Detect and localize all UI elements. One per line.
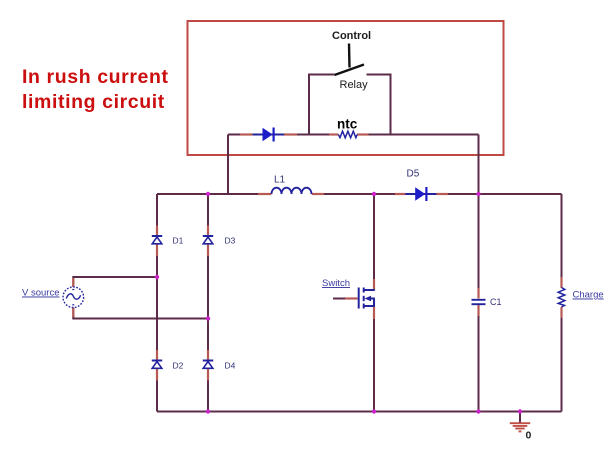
svg-text:Relay: Relay	[340, 79, 369, 91]
relay contact box (wires)	[308, 74, 392, 135]
wire: charge branch lower vertical	[561, 308, 563, 412]
resistor Charge	[558, 277, 565, 318]
svg-text:Charge: Charge	[573, 290, 604, 301]
wire: charge branch upper vertical	[561, 194, 563, 287]
wire: main bottom rail	[157, 411, 562, 413]
svg-text:Control: Control	[332, 30, 371, 42]
annotation box (red)	[188, 21, 504, 155]
svg-text:D1: D1	[173, 236, 184, 246]
diode D6 (inrush bypass diode)	[240, 128, 297, 142]
wire: inrush branch horizontal left of ntc	[228, 134, 330, 136]
wire: source bottom connection	[73, 308, 208, 319]
wire: mosfet source vertical	[373, 319, 375, 412]
transistor M1 (MOSFET switch)	[345, 279, 375, 319]
wire: inrush branch horizontal right of ntc	[368, 134, 479, 136]
junction dot at bridge bottom right	[206, 409, 210, 413]
wire: bridge right leg	[207, 194, 209, 412]
svg-text:Switch: Switch	[322, 278, 350, 289]
diode D3	[203, 226, 213, 257]
wire: main top rail right of L1	[323, 193, 562, 195]
wire: C1 lower vertical	[478, 316, 480, 412]
inductor L1	[258, 188, 324, 194]
svg-text:0: 0	[526, 430, 532, 442]
wire: gate lead	[333, 298, 345, 300]
wire: C1 upper vertical	[478, 194, 480, 288]
svg-text:D5: D5	[407, 169, 420, 180]
wire: inrush right vertical down to main rail	[478, 135, 480, 195]
wire: source top connection	[73, 277, 157, 287]
diode D4	[203, 350, 213, 381]
wire: main top rail left of L1	[157, 193, 259, 195]
svg-text:limiting circuit: limiting circuit	[22, 91, 165, 113]
junction dot at ground	[518, 409, 522, 413]
svg-text:V source: V source	[22, 288, 60, 299]
diode D5	[395, 187, 448, 201]
svg-text:D4: D4	[225, 361, 236, 371]
junction dot at C1 bottom	[476, 409, 480, 413]
ground 0	[510, 412, 530, 432]
wire: bridge left leg	[156, 194, 158, 412]
AC source V1	[63, 278, 84, 317]
relay actuator lever (black)	[335, 44, 365, 76]
wire: inrush left vertical down to main rail	[227, 135, 229, 195]
diode D2	[152, 350, 162, 381]
junction dot at mosfet source	[372, 409, 376, 413]
svg-text:ntc: ntc	[337, 117, 358, 132]
svg-text:C1: C1	[490, 297, 502, 307]
svg-text:D2: D2	[173, 361, 184, 371]
resistor ntc (zigzag)	[329, 131, 369, 138]
capacitor C1	[472, 288, 486, 316]
svg-text:In rush current: In rush current	[22, 66, 169, 88]
junction dot at C1 top	[476, 192, 480, 196]
diode D1	[152, 226, 162, 257]
wire: mosfet drain vertical	[373, 194, 375, 279]
svg-text:L1: L1	[274, 175, 286, 186]
junction dot at bridge top right	[206, 192, 210, 196]
svg-text:D3: D3	[225, 236, 236, 246]
junction dot at source bottom	[206, 316, 210, 320]
title text "In rush current limiting circuit"	[22, 66, 169, 113]
junction dot at source top	[155, 275, 159, 279]
junction dot at mosfet drain	[372, 192, 376, 196]
